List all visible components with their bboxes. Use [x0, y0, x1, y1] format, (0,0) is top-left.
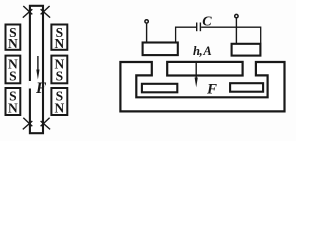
electrode 1 (upper left)	[143, 43, 178, 56]
magnet box left 3 (S/N)	[6, 88, 21, 116]
break mark top-right	[41, 6, 51, 18]
label F (right)	[206, 81, 217, 97]
wire right segment with elbow	[201, 27, 261, 43]
electrode 2 (upper right)	[232, 44, 261, 56]
break mark bottom-left	[23, 118, 33, 130]
small rectangle right	[230, 83, 263, 92]
svg-text:,: ,	[199, 44, 202, 58]
force arrow (right diagram)	[195, 63, 198, 88]
base tub (outer frame with dovetail groove)	[120, 62, 284, 111]
magnet box left 1 (S/N)	[6, 25, 21, 52]
small rectangle left	[142, 84, 177, 93]
magnet box right 1 (S/N)	[51, 25, 67, 52]
terminal 2	[235, 14, 238, 43]
force arrow in shaft	[36, 56, 39, 80]
svg-text:N: N	[8, 101, 18, 116]
label F (left)	[35, 80, 47, 97]
svg-text:F: F	[206, 81, 217, 97]
break mark bottom-right	[41, 118, 51, 130]
scan gap on shaft left edge near F	[29, 81, 32, 89]
label C	[202, 14, 212, 29]
magnet box right 2 (N/S)	[51, 56, 67, 84]
svg-text:N: N	[55, 101, 65, 116]
middle bar (movable electrode)	[167, 62, 242, 76]
magnet box right 3 (S/N)	[51, 88, 67, 116]
svg-text:S: S	[56, 69, 64, 84]
svg-text:C: C	[202, 14, 212, 29]
label h, A	[193, 44, 212, 58]
wire left segment with elbow	[176, 27, 196, 42]
svg-text:S: S	[9, 69, 17, 84]
svg-text:F: F	[35, 80, 47, 97]
svg-text:N: N	[55, 36, 65, 51]
svg-text:N: N	[8, 36, 18, 51]
terminal 1	[145, 20, 148, 42]
capacitor C plates	[197, 23, 201, 32]
shaft (vertical bar)	[30, 6, 43, 133]
magnet box left 2 (N/S)	[6, 56, 21, 84]
break mark top-left	[23, 6, 33, 18]
svg-text:A: A	[202, 44, 211, 58]
